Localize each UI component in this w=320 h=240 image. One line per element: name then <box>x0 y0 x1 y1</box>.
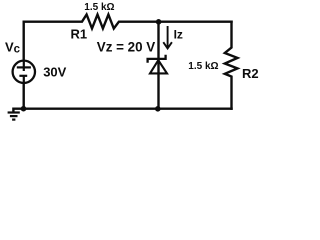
svg-text:Iz: Iz <box>174 27 183 41</box>
wire middle branch (zener) <box>157 22 159 109</box>
wire left lower <box>23 76 25 109</box>
node junction dot top <box>156 19 162 25</box>
svg-text:1.5 kΩ: 1.5 kΩ <box>188 61 218 72</box>
svg-text:1.5 kΩ: 1.5 kΩ <box>84 2 114 13</box>
wire bottom <box>24 107 232 109</box>
svg-text:Vz = 20 V: Vz = 20 V <box>97 40 156 55</box>
wire top with resistor R1 zigzag <box>24 15 232 29</box>
wire right side with resistor R2 zigzag <box>225 22 238 109</box>
battery plus plate <box>17 66 31 68</box>
ground <box>8 113 20 120</box>
svg-text:30V: 30V <box>43 64 66 79</box>
node junction dot bottom middle <box>155 106 161 112</box>
zener diode D1 triangle <box>150 60 167 73</box>
svg-text:R1: R1 <box>71 27 88 42</box>
battery minus plate <box>19 75 27 77</box>
voltage source Vc circle <box>13 61 35 83</box>
current arrow Iz <box>163 26 172 48</box>
node junction dot bottom left <box>21 106 27 112</box>
ground lead <box>13 109 23 113</box>
svg-text:R2: R2 <box>242 66 259 81</box>
zener diode D1 bar with bent ends <box>148 55 166 63</box>
wire left upper <box>23 22 25 71</box>
